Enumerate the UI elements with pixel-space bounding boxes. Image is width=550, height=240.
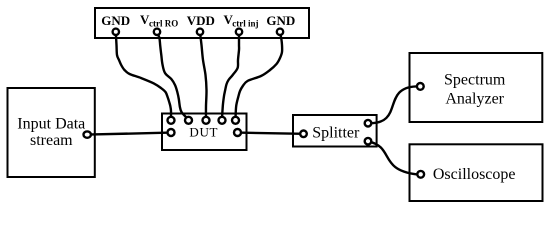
wire Splitter top output to Spectrum Analyzer	[369, 86, 417, 123]
svg-text:GND: GND	[266, 13, 295, 28]
pin GND1 on header	[113, 29, 119, 35]
Splitter output pin B	[365, 138, 372, 145]
svg-text:GND: GND	[101, 13, 130, 28]
DUT pin4 (top)	[219, 117, 226, 124]
wire Input Data stream to DUT left pin	[87, 133, 171, 135]
bias/control header box	[95, 8, 309, 38]
Splitter input pin	[300, 131, 307, 138]
wire bias GND2 to DUT pin5	[236, 32, 283, 119]
svg-text:DUT: DUT	[189, 125, 218, 140]
DUT box	[162, 114, 247, 151]
wire DUT right pin to Splitter left pin	[238, 133, 304, 134]
wire bias Vctrl_inj to DUT pin4	[222, 32, 239, 119]
DUT input pin (left)	[168, 129, 175, 136]
svg-text:Splitter: Splitter	[312, 125, 360, 142]
Spectrum Analyzer input pin	[417, 83, 424, 90]
svg-text:ctrl inj: ctrl inj	[232, 18, 258, 28]
svg-text:Oscilloscope: Oscilloscope	[433, 166, 516, 183]
DUT pin2 (top)	[185, 117, 192, 124]
svg-text:stream: stream	[30, 132, 73, 149]
svg-text:Analyzer: Analyzer	[445, 91, 504, 108]
pin Vctrl_RO on header	[154, 29, 160, 35]
Oscilloscope box	[410, 144, 543, 201]
wire Splitter bottom output to Oscilloscope	[369, 141, 417, 174]
DUT output pin (right)	[234, 129, 241, 136]
pin GND2 on header	[277, 29, 283, 35]
Splitter box	[293, 115, 377, 147]
DUT pin5 (top)	[232, 117, 239, 124]
DUT pin3 (top)	[203, 117, 210, 124]
svg-text:Input Data: Input Data	[17, 115, 85, 132]
svg-text:VDD: VDD	[187, 13, 215, 28]
Input Data stream output pin	[84, 131, 91, 137]
pin Vctrl_inj on header	[236, 29, 242, 35]
Splitter output pin A	[365, 120, 372, 127]
wire bias GND1 to DUT pin1	[116, 32, 171, 119]
Oscilloscope input pin	[417, 171, 424, 178]
wire bias VDD to DUT pin3	[200, 32, 207, 119]
pin VDD on header	[197, 29, 203, 35]
DUT pin1 (top)	[168, 117, 175, 124]
Input Data stream box	[8, 88, 95, 177]
svg-text:Spectrum: Spectrum	[444, 71, 506, 88]
Spectrum Analyzer box	[410, 53, 543, 122]
wire bias Vctrl_RO to DUT pin2	[157, 32, 189, 119]
svg-text:ctrl RO: ctrl RO	[149, 18, 178, 28]
